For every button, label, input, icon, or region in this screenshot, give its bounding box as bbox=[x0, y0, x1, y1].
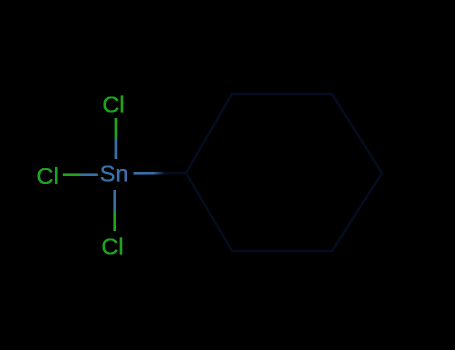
wire: bond Sn - Cl(bottom) bbox=[113, 190, 116, 231]
svg-text:Cl: Cl bbox=[36, 163, 58, 189]
wire: bond Cl(left) - Sn bbox=[63, 173, 98, 176]
wire: bond Sn - ring carbon bbox=[134, 172, 187, 175]
svg-text:Cl: Cl bbox=[102, 92, 124, 118]
ring: cyclohexane hexagon bbox=[186, 94, 382, 251]
svg-text:Cl: Cl bbox=[101, 233, 123, 259]
svg-text:Sn: Sn bbox=[100, 161, 129, 187]
wire: bond Cl(top) - Sn bbox=[115, 118, 118, 159]
